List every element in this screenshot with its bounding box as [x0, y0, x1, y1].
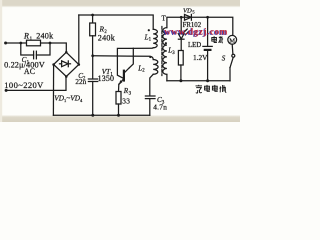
node: L2 phase dot — [149, 56, 151, 58]
wire: bottom rail — [53, 114, 149, 116]
node at R1 right — [49, 42, 52, 45]
wire: secondary top lead to right section — [167, 17, 233, 35]
node at R1 left — [19, 42, 22, 45]
svg-text:1.2V: 1.2V — [193, 53, 208, 62]
watermark www.dgzj.com — [163, 27, 228, 38]
wire: base feed horizontal y=56.4 to L2 top — [93, 56, 154, 60]
wire: C1 branch — [21, 43, 34, 55]
wire: collector vertical — [129, 48, 133, 68]
svg-text:33: 33 — [122, 97, 130, 106]
wire: L2 bottom to C3 — [150, 74, 153, 95]
wire: secondary bottom lead — [166, 74, 168, 80]
diode VD5 — [185, 14, 192, 20]
diode inside bridge — [62, 61, 69, 67]
capacitor C1 — [33, 51, 35, 59]
bridge rectifier VD1~VD4 diamond — [54, 52, 79, 76]
transformer L3 secondary coil — [163, 28, 167, 75]
node R2/C2 junction — [91, 54, 94, 57]
node: L1 phase dot — [148, 29, 150, 31]
node R2 top — [91, 14, 94, 17]
svg-text:4.7n: 4.7n — [153, 103, 167, 112]
node: L3 phase dot — [165, 42, 167, 44]
transformer L1 primary coil — [153, 29, 157, 48]
svg-text:R: R — [23, 32, 29, 41]
transistor VT1 — [123, 71, 125, 81]
svg-text:1350: 1350 — [98, 74, 115, 83]
svg-text:22n: 22n — [75, 78, 86, 86]
node: left AC terminal upper — [4, 42, 7, 45]
wire: lower AC line y=90 — [6, 77, 66, 91]
page background — [0, 0, 240, 122]
node R3 bottom — [117, 114, 120, 117]
svg-text:S: S — [222, 55, 226, 63]
wire: bridge right vertex up to top rail — [78, 15, 80, 65]
wire: L1 bottom lead and base vertical — [117, 48, 153, 79]
transformer core — [161, 27, 163, 76]
svg-text:M: M — [229, 37, 235, 44]
resistor R1 — [27, 40, 41, 46]
svg-text:AC: AC — [24, 67, 35, 76]
svg-text:T: T — [162, 14, 167, 22]
node: battery branch tap — [206, 16, 209, 19]
motor M — [228, 35, 237, 44]
bridge vertex nodes — [65, 51, 68, 54]
wire: top rail y=15 — [79, 15, 153, 29]
wire: bridge left vertex down to bottom rail — [52, 65, 54, 116]
wire motor to switch — [231, 44, 234, 54]
svg-text:100~220V: 100~220V — [4, 80, 44, 90]
svg-text:240k: 240k — [36, 32, 54, 41]
resistor R3 — [116, 92, 121, 105]
resistor R2 — [92, 15, 94, 23]
node: LED branch tap — [180, 16, 183, 19]
switch S — [232, 54, 235, 57]
node: left AC terminal lower — [5, 89, 8, 92]
svg-text:VD: VD — [183, 7, 192, 14]
wire: emitter to R3 — [118, 84, 120, 91]
wire: upper AC line y=43 — [6, 43, 67, 52]
label R1 240k — [4, 7, 235, 111]
capacitor C3 — [145, 95, 155, 97]
battery GB — [207, 17, 209, 46]
node C2 bottom — [91, 114, 94, 117]
label dianji 电机 — [212, 36, 223, 43]
wire: right section bottom rail — [167, 80, 230, 82]
svg-text:LED: LED — [188, 42, 201, 49]
wire LED to R4 — [180, 39, 182, 50]
LED — [180, 17, 182, 33]
node: R4 bottom — [179, 79, 182, 82]
transformer L2 feedback coil — [153, 60, 158, 75]
svg-text:VD1~VD4: VD1~VD4 — [54, 94, 83, 103]
label chongdian dianchi 充电电池 — [196, 85, 227, 93]
node: battery bottom — [206, 79, 209, 82]
capacitor C2 — [92, 56, 94, 79]
resistor R4 — [178, 51, 183, 66]
svg-text:240k: 240k — [98, 33, 116, 42]
